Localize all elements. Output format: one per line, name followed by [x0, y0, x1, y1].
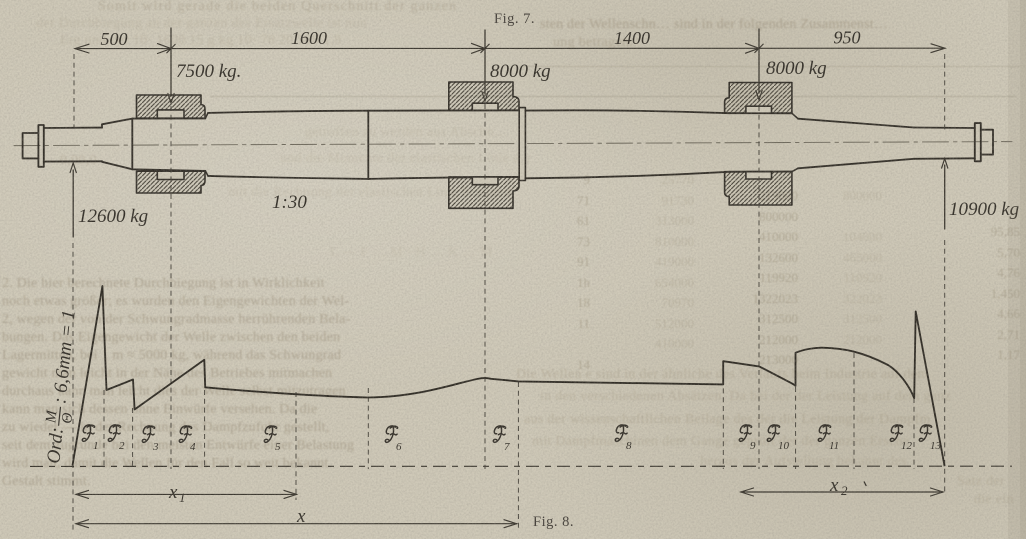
bearing 1 bottom shell cap: [157, 171, 184, 179]
x2 dimension line: [741, 491, 943, 493]
shaft cone 1: [102, 119, 132, 170]
extension dashed line left end top: [73, 54, 75, 128]
diagram boundary dashed F5/F6 (x1 end): [295, 392, 297, 500]
diagram boundary dashed F8/F9: [722, 362, 724, 469]
shaft body to bearing 2 and journal 2: [368, 110, 519, 179]
paper grain: [0, 0, 1, 1]
bearing 3 bottom block: [725, 172, 792, 205]
diagram boundary dashed F12/F13: [913, 398, 915, 469]
bearing 2 bottom block: [449, 177, 519, 208]
shaft shoulder line at middle: [367, 111, 369, 179]
bearing 2 top block: [449, 82, 519, 110]
shaft cone 3: [798, 119, 914, 169]
diagram zero baseline: [30, 465, 1012, 467]
shaft right collar: [975, 123, 981, 161]
faded show-through text, top-right: [540, 16, 888, 34]
extension dashed line right end top: [944, 54, 946, 130]
label F6: [385, 426, 402, 453]
bearing 1 top shell cap: [157, 110, 184, 118]
force line 7500kg: [170, 28, 172, 96]
top dimension line: [75, 47, 945, 49]
label F13: [919, 425, 941, 452]
faded text bottom-left block: [2, 275, 325, 293]
extension dashed line right end bottom to diagram: [944, 240, 946, 493]
shaft journal right end: [914, 128, 975, 159]
dim arrow right end: [931, 44, 945, 53]
label F2: [108, 425, 125, 452]
label F3: [142, 426, 159, 453]
dim tick at 485: [472, 43, 490, 53]
bearing 3 top block: [725, 83, 792, 114]
force arrowhead 8000kg right: [756, 91, 762, 101]
dim arrow left end: [75, 44, 89, 53]
shaft body between bearings 2-3: [525, 110, 729, 178]
bearing 3 top shell cap: [746, 106, 772, 113]
label F7: [493, 426, 510, 453]
x1 dimension line: [76, 493, 297, 495]
shaft left collar: [38, 125, 43, 167]
label F4: [179, 426, 196, 453]
shaft journal 3: [729, 113, 792, 172]
collar ring right of bearing 2: [519, 108, 525, 181]
construction dashed line bearing 2 center: [484, 104, 486, 469]
reaction line 12600kg: [72, 170, 74, 237]
label F8: [615, 425, 632, 452]
label F10: [767, 425, 789, 452]
faded text bottom-center/right rows: [516, 366, 929, 384]
bearing 1 top block: [137, 95, 206, 118]
label F9: [739, 425, 756, 452]
diagram boundary dashed F4/F5: [204, 390, 206, 469]
force arrowhead 8000kg middle: [482, 92, 488, 102]
x dimension line: [76, 523, 517, 525]
construction dashed line bearing 1 center: [170, 106, 172, 469]
faded table numbers, right: [566, 170, 590, 375]
bearing 3 bottom shell cap: [746, 172, 772, 179]
shaft bearing journal 1: [132, 118, 205, 170]
page right edge shading: [1008, 0, 1026, 539]
diagram boundary dashed F7/F8 (x end): [517, 382, 519, 528]
shaft body between bearings 1-2: [208, 111, 368, 179]
label F5: [264, 426, 281, 453]
shaft right end stub: [981, 130, 993, 155]
reaction arrowhead 12600kg: [70, 163, 76, 173]
label F1: [82, 425, 98, 452]
shaft left end stub: [23, 133, 39, 158]
bearing 2 bottom shell cap: [472, 177, 498, 185]
diagram boundary dashed F1/F2: [103, 390, 105, 469]
centerline of shaft: [14, 142, 1012, 146]
bearing 2 top shell cap: [472, 103, 498, 110]
shaft journal 1: [44, 128, 102, 162]
bearing 1 bottom block: [137, 171, 206, 193]
force arrowhead 7500kg: [168, 94, 174, 104]
reaction line 10900kg: [944, 165, 946, 229]
diagram boundary dashed F2/F3: [132, 408, 134, 469]
bending moment curve: [73, 286, 945, 466]
diagram boundary dashed F11/F12: [853, 353, 855, 469]
label F12: [890, 425, 912, 452]
faded show-through text, top-left: [98, 0, 457, 16]
ordinate scale label Ord: M/Th : 6,6mm = 1: [39, 309, 86, 466]
dim tick at 759: [746, 43, 764, 53]
force line 8000kg (right): [758, 29, 760, 93]
force line 8000kg (middle): [484, 30, 486, 94]
construction dashed line bearing 3 center: [758, 106, 760, 469]
reaction arrowhead 10900kg: [942, 159, 948, 169]
diagram boundary dashed F10/F11: [795, 387, 797, 469]
faded mid-left formula fragments: [60, 152, 97, 170]
diagram boundary dashed under shoulder: [367, 388, 369, 469]
label F11: [818, 425, 839, 452]
shaft step right of bearing 1: [205, 113, 208, 176]
extension dashed line left end bottom to diagram: [72, 243, 74, 530]
shaft step right of bearing 3: [792, 113, 798, 171]
dim tick at 171: [158, 44, 176, 54]
